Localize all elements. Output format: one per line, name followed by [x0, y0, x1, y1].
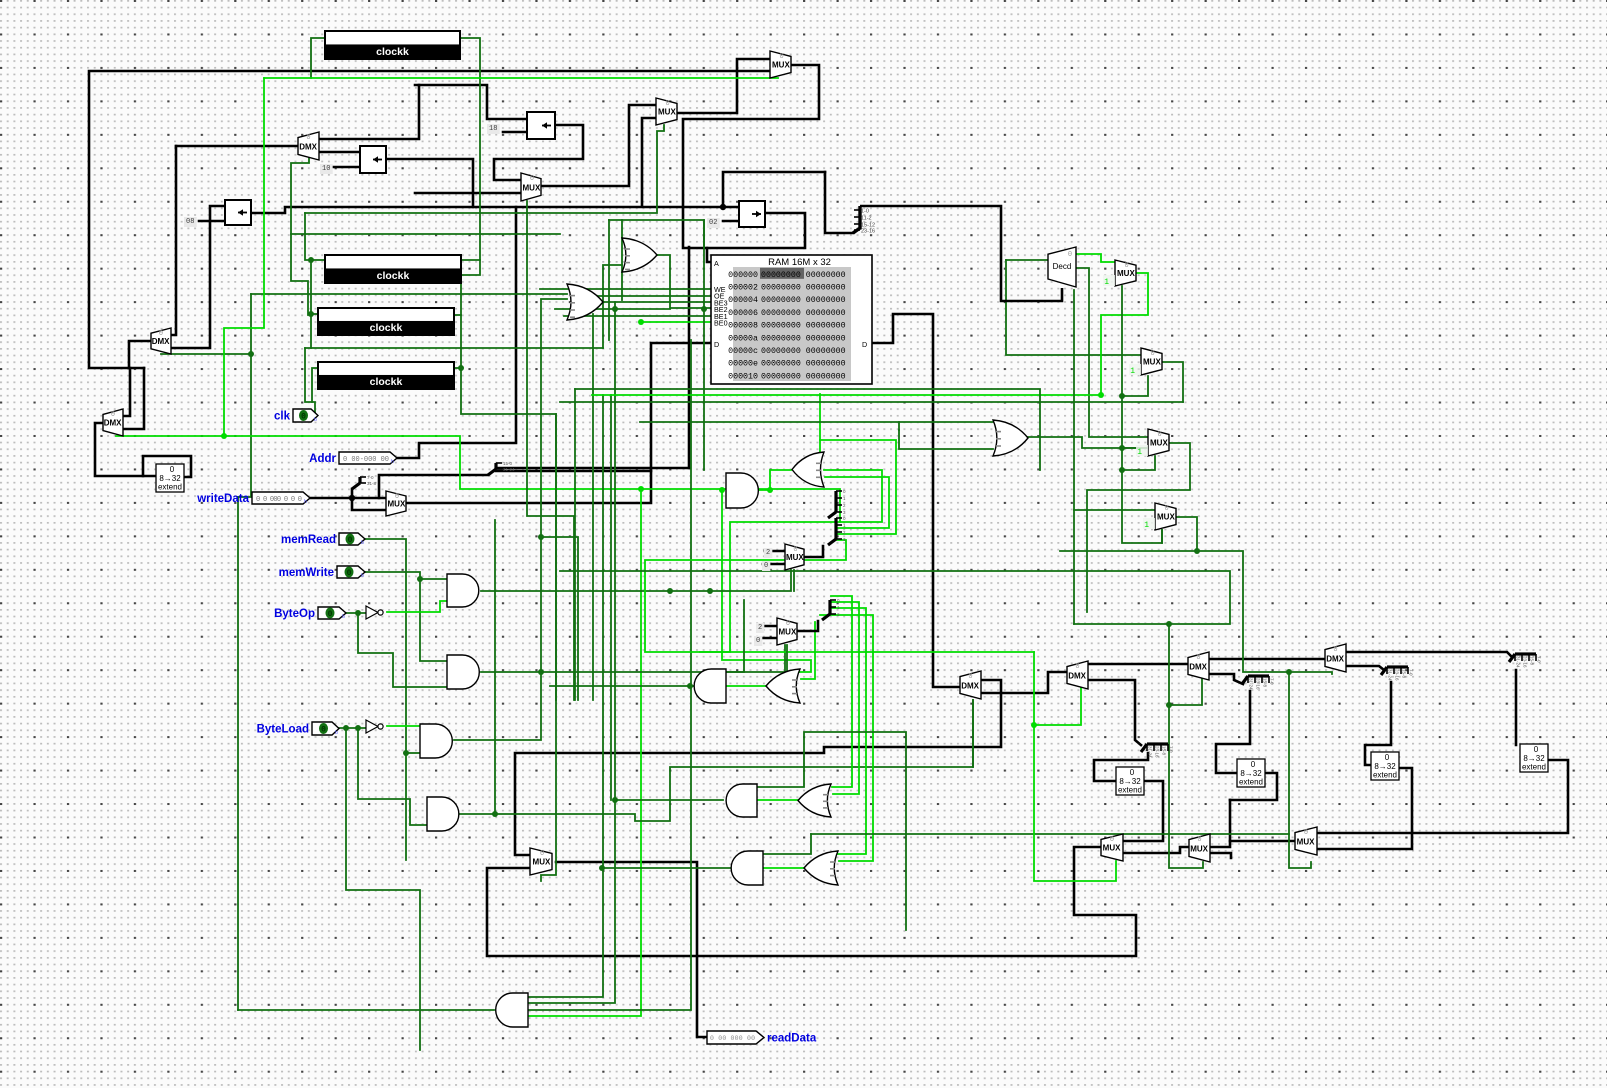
svg-text:23-16: 23-16: [1395, 669, 1400, 681]
junction v1122-c: [1119, 467, 1125, 473]
wire green bright-y78: [264, 77, 778, 79]
decoder Decd: [1048, 247, 1076, 287]
mux r3: [1136, 429, 1169, 457]
svg-text:MUX: MUX: [533, 858, 551, 867]
svg-text:00000000 00000000: 00000000 00000000: [761, 309, 846, 318]
junction y591-b: [707, 588, 713, 594]
svg-text:10: 10: [322, 165, 330, 173]
svg-text:clockk: clockk: [370, 322, 403, 334]
junction y624: [1166, 621, 1172, 627]
wire green and4p-out: [602, 867, 730, 869]
svg-text:11-2: 11-2: [861, 216, 872, 222]
wire green and2-in1: [726, 600, 744, 672]
wire bus dmxC-left: [95, 423, 156, 476]
and gate p4: [731, 851, 763, 885]
svg-text:0: 0: [1197, 836, 1201, 844]
mux top: [770, 51, 791, 78]
svg-text:DMX: DMX: [961, 681, 979, 690]
wire green and3p-in1: [757, 732, 906, 930]
wire green v691: [528, 340, 691, 1010]
wire green y348-ext: [461, 347, 603, 349]
wire bus box08-in-top: [171, 206, 225, 348]
svg-text:b: b: [335, 730, 338, 736]
wire bus box10-out: [386, 159, 473, 207]
and gate p3: [726, 784, 757, 817]
svg-text:0: 0: [321, 726, 326, 735]
wire green or2-out: [726, 685, 766, 687]
svg-text:23-16: 23-16: [861, 229, 875, 235]
wire bus box18-lbl: [503, 131, 527, 134]
wire bus dmx1-out2: [981, 672, 1067, 693]
svg-text:clockk: clockk: [376, 46, 409, 58]
svg-text:DMX: DMX: [104, 419, 122, 428]
svg-text:MUX: MUX: [1103, 844, 1121, 853]
svg-text:b: b: [314, 417, 317, 423]
junction y395: [1098, 392, 1104, 398]
wire green mux1-out: [1101, 273, 1148, 395]
svg-text:0 00-000 00: 0 00-000 00: [343, 456, 389, 464]
junction v1169: [1166, 702, 1172, 708]
svg-text:b: b: [342, 614, 345, 620]
wire green mux4r-in1: [1074, 509, 1155, 511]
svg-text:1: 1: [1104, 278, 1109, 287]
junction y868: [599, 865, 605, 871]
wire bus splitSPD-out: [496, 467, 689, 470]
wire bus dmx2-out1: [1088, 663, 1188, 666]
svg-text:23-16: 23-16: [1256, 678, 1261, 690]
wire bus split5-down: [1094, 753, 1148, 781]
wire green k3-chain-v: [461, 275, 556, 753]
or gate p2: [766, 669, 800, 703]
wire green v556b: [555, 414, 557, 700]
svg-text:2: 2: [766, 549, 770, 557]
or gate p4: [804, 851, 838, 885]
wire green bl-stair2: [358, 728, 427, 825]
junction and4out: [492, 811, 498, 817]
junction and3o: [538, 534, 544, 540]
svg-text:15-8: 15-8: [1530, 656, 1535, 666]
wire green mux3r-in2: [1122, 447, 1148, 449]
splitter byte-b: [822, 598, 840, 620]
label 18: [487, 124, 500, 134]
svg-text:0: 0: [1130, 768, 1135, 777]
wire green y213-line: [305, 125, 664, 213]
wire bus split8-down: [1365, 682, 1391, 765]
wire bus mux2-out: [677, 59, 770, 113]
wire green v1289: [1289, 672, 1311, 868]
wire bus split7-down: [1515, 670, 1518, 745]
label 08: [184, 217, 197, 227]
wire green y705-line: [1169, 678, 1202, 705]
svg-text:MUX: MUX: [1117, 269, 1135, 278]
junction y489-b: [719, 487, 725, 493]
wire green k4-feed: [312, 368, 318, 402]
wire green y834-long: [811, 833, 1289, 835]
svg-text:0 0 000 0 0 0: 0 0 000 0 0 0: [256, 496, 302, 504]
mux r4: [1143, 503, 1176, 530]
and gate ctl4: [427, 797, 459, 831]
junction dmxB-sel: [248, 351, 254, 357]
wire green muxA-sel: [793, 570, 795, 591]
mux mid-right: [521, 173, 541, 201]
junction wd: [349, 495, 355, 501]
svg-text:0: 0: [1251, 760, 1256, 769]
svg-text:15-8: 15-8: [1263, 678, 1268, 688]
wire bus addr-ram-a: [688, 247, 691, 468]
wire green and2c-out: [481, 645, 785, 672]
wire green v494: [494, 520, 496, 814]
wire green splitA-net3: [820, 440, 896, 534]
svg-text:DMX: DMX: [152, 337, 170, 346]
svg-text:DMX: DMX: [1189, 662, 1207, 671]
junction y551: [1194, 548, 1200, 554]
svg-text:15-8: 15-8: [1402, 669, 1407, 679]
wire green and4p-in1: [763, 834, 811, 854]
register box18: [527, 112, 555, 139]
wire green ram-we: [540, 288, 711, 290]
wire green k2-right: [461, 259, 480, 261]
svg-text:MUX: MUX: [772, 61, 790, 70]
wire bus y85-line: [415, 85, 527, 119]
wire bus dmxa-out2: [319, 151, 360, 154]
svg-text:MUX: MUX: [388, 500, 406, 509]
subcircuit clockk4: [318, 362, 454, 389]
wire green dmx1-sel: [972, 700, 974, 767]
wire bus muxA-in1: [765, 550, 785, 553]
demux DMX1: [960, 671, 981, 699]
wire bus ext2-out: [1230, 773, 1277, 800]
wire bus x826-down: [825, 172, 853, 233]
wire bus muxtop-out: [683, 65, 819, 262]
junction y591-a: [667, 588, 673, 594]
svg-text:RAM 16M x 32: RAM 16M x 32: [768, 257, 831, 268]
wire green bright-y395: [592, 394, 1101, 396]
wire bus dmx4-out2: [1346, 666, 1384, 670]
wire green not2-out: [387, 725, 420, 727]
label muxA-0: [762, 561, 770, 571]
register box08: [225, 200, 251, 225]
wire green splitB-net1: [831, 596, 852, 787]
svg-text:7-0: 7-0: [367, 475, 374, 480]
wire green v1169-top: [1074, 623, 1169, 625]
svg-text:1: 1: [1130, 367, 1135, 376]
wire green byteop-stair: [358, 613, 447, 687]
wire green k2-left: [311, 259, 325, 261]
svg-text:MUX: MUX: [658, 108, 676, 117]
demux DMX2: [1067, 661, 1088, 689]
wire bus muxB-in1: [758, 625, 777, 628]
svg-text:7-0: 7-0: [1169, 746, 1174, 753]
wire green and4-out: [460, 700, 973, 821]
wire green memwrite: [365, 572, 447, 579]
wire bus dmx3-out1: [1210, 658, 1325, 661]
register box02: [739, 201, 765, 227]
wire green k2-left-v: [310, 260, 312, 348]
svg-text:MUX: MUX: [779, 628, 797, 637]
svg-text:000002: 000002: [728, 284, 758, 293]
wire green or4-out: [763, 867, 804, 869]
mux readSel: [530, 848, 552, 875]
wire green dmxa-sel: [291, 158, 311, 315]
wire bus muxwd-out: [406, 343, 711, 503]
demux DMX-c: [103, 409, 123, 436]
wire green memread-spur: [541, 537, 578, 700]
svg-text:DMX: DMX: [1068, 671, 1086, 680]
svg-text:Decd: Decd: [1053, 262, 1072, 271]
svg-text:ByteLoad: ByteLoad: [257, 724, 309, 736]
wire green decd-out2: [1075, 268, 1148, 437]
junction k3l: [308, 311, 314, 317]
wire green v238: [237, 497, 239, 1010]
mux r2: [1129, 348, 1162, 376]
wire green v603: [528, 395, 603, 997]
wire green bright-v641: [528, 489, 641, 1016]
svg-text:b: b: [361, 540, 364, 546]
junction y800: [612, 797, 618, 803]
svg-text:31-24: 31-24: [503, 467, 515, 472]
wire green bright-v820: [819, 394, 821, 440]
wire bus box10-lbl: [333, 166, 360, 169]
junction k4r: [458, 365, 464, 371]
input pin memWrite: [279, 566, 365, 579]
junction be2-b: [701, 306, 707, 312]
wire green bright-selA: [1034, 652, 1116, 881]
wire green and3-in2: [406, 752, 420, 754]
not gate 1: [366, 606, 383, 619]
wire bus ext3-out: [1317, 768, 1412, 849]
wire bus muxc-out: [1210, 841, 1295, 847]
wire green y551-long: [1060, 551, 1332, 674]
wire bus wd-split-up: [351, 489, 354, 498]
svg-text:MUX: MUX: [523, 183, 541, 192]
wire bus dmxa-in: [176, 145, 298, 148]
wire green v615: [528, 302, 615, 1003]
svg-text:00000c: 00000c: [728, 347, 758, 356]
junction be0: [638, 319, 644, 325]
splitter wd: [352, 475, 377, 489]
input pin ByteOp: [274, 607, 346, 620]
svg-text:00000000 00000000: 00000000 00000000: [761, 271, 846, 280]
wire bus ext1-out: [1123, 781, 1163, 841]
wire green and1c-out: [481, 570, 791, 591]
input pin ByteLoad: [257, 722, 339, 736]
wire green bl-stair1: [346, 728, 420, 1050]
svg-text:0: 0: [1075, 663, 1079, 671]
mux byte-b: [777, 618, 797, 645]
mux bot-a: [1101, 834, 1123, 861]
svg-text:00000000 00000000: 00000000 00000000: [761, 296, 846, 305]
wire bus wd-d-line: [496, 470, 651, 473]
wire green y348-up: [603, 265, 622, 348]
wire green splitB-net2: [831, 602, 859, 794]
svg-text:15-0: 15-0: [503, 461, 513, 466]
svg-text:extend: extend: [1239, 778, 1263, 787]
wire green splitA-net4: [645, 540, 1034, 652]
svg-text:A: A: [714, 259, 719, 268]
junction y672: [538, 669, 544, 675]
wire green clk-net: [305, 348, 315, 416]
svg-text:clockk: clockk: [377, 270, 410, 282]
wire green dmx2-sel: [1034, 686, 1081, 725]
label 02: [707, 218, 720, 228]
junction and2out: [687, 683, 693, 689]
svg-text:00000a: 00000a: [728, 334, 758, 343]
wire green v722-net: [722, 490, 811, 672]
wire bus dmx1-out1: [515, 680, 1001, 855]
svg-text:MUX: MUX: [1143, 358, 1161, 367]
svg-text:0: 0: [301, 413, 306, 422]
or gate right: [993, 420, 1028, 456]
junction byteload-1: [343, 725, 349, 731]
svg-text:31-24: 31-24: [1388, 669, 1393, 681]
wire green muxmid-sel: [526, 201, 528, 213]
wire green v1169: [1169, 624, 1203, 868]
wire green memread: [365, 539, 406, 860]
svg-text:extend: extend: [1118, 786, 1142, 795]
wire green k4-right: [454, 367, 461, 369]
mux r1: [1103, 260, 1136, 287]
extender ext4: [1520, 744, 1548, 772]
wire green splitA-net2: [825, 477, 889, 528]
wire green v622: [621, 220, 623, 300]
wire bus dmx3-out2: [1210, 674, 1243, 684]
subcircuit clockk2: [325, 255, 461, 283]
svg-text:0: 0: [1333, 646, 1337, 654]
wire bus muxA-out: [804, 546, 823, 557]
wire green v251: [238, 294, 251, 497]
svg-text:31-8: 31-8: [367, 481, 377, 486]
RAM 16M x 32: [711, 255, 872, 384]
demux DMX3: [1188, 652, 1209, 680]
wire bus dmxB-link: [129, 341, 151, 368]
wire green netA-left: [700, 522, 836, 652]
svg-text:000000: 000000: [728, 271, 758, 280]
mux bot-c: [1295, 827, 1317, 855]
svg-text:0: 0: [1068, 251, 1072, 259]
wire green or2-in2: [801, 622, 815, 679]
svg-text:0: 0: [347, 569, 352, 578]
svg-text:D: D: [862, 340, 867, 349]
wire green and3-out: [454, 299, 567, 740]
svg-text:DMX: DMX: [299, 142, 317, 151]
svg-text:extend: extend: [158, 483, 182, 492]
svg-text:MUX: MUX: [1190, 844, 1208, 853]
output pin readData: [707, 1031, 817, 1045]
wire green decd-in: [1006, 259, 1048, 261]
wire bus split6-down: [1216, 691, 1250, 773]
or gate A: [622, 238, 657, 272]
svg-text:DMX: DMX: [1326, 654, 1344, 663]
register box10: [360, 146, 386, 173]
splitter s8: [1381, 667, 1414, 681]
wire green or3-out: [757, 799, 798, 801]
mux second: [656, 98, 677, 125]
svg-text:extend: extend: [1522, 763, 1546, 772]
junction v1122-a: [1119, 393, 1125, 399]
wire bus ext4-out: [1317, 760, 1568, 833]
svg-text:0: 0: [756, 637, 760, 645]
svg-text:0: 0: [348, 536, 353, 545]
wire green k1-left: [311, 38, 325, 78]
wire green splitA-net1: [824, 470, 882, 522]
wire bus wd-mux-in2: [352, 498, 386, 510]
junction v1289: [1286, 669, 1292, 675]
wire bus dmx4-out1: [1346, 652, 1512, 657]
input pin writeData: [196, 492, 310, 505]
svg-text:7-0: 7-0: [1270, 678, 1275, 685]
wire green or5-in1: [640, 421, 993, 423]
svg-text:7-0: 7-0: [1537, 656, 1542, 663]
svg-text:00000000 00000000: 00000000 00000000: [761, 372, 846, 381]
wire green decd-out1: [1075, 254, 1115, 262]
svg-text:18: 18: [489, 125, 497, 133]
junction byteop: [355, 610, 361, 616]
svg-text:08: 08: [186, 218, 194, 226]
wire green orA-out: [657, 255, 711, 308]
subcircuit clockk3: [318, 308, 454, 335]
demux DMX-a: [298, 132, 319, 160]
wire green orB-out: [603, 301, 711, 303]
wire green ram-be0: [641, 321, 711, 323]
extender ext3: [1371, 752, 1399, 780]
wire green mux4r-sel: [1161, 530, 1163, 543]
wire green and1-out-long: [759, 489, 840, 522]
svg-text:MUX: MUX: [1297, 837, 1315, 846]
wire bus muxb-out: [1123, 847, 1189, 853]
wire green y213-tail: [305, 213, 311, 260]
or gate p3: [798, 784, 831, 817]
wire bus muxa-out: [487, 847, 1136, 956]
wire bus y192-line: [415, 192, 521, 195]
wire green mw-v: [420, 579, 447, 661]
svg-text:7-0: 7-0: [1409, 669, 1414, 676]
svg-text:0: 0: [1196, 654, 1200, 662]
wire bus wd-mux-in: [352, 497, 386, 500]
splitter s6: [1242, 676, 1275, 690]
wire bus writedata-link: [310, 497, 352, 500]
input pin clk: [274, 409, 318, 423]
svg-text:D: D: [714, 340, 719, 349]
wire bus muxB-out: [797, 621, 818, 631]
wire green y571-long: [560, 571, 1230, 624]
wire green y402-long: [560, 401, 1183, 403]
wire green ram-be1: [564, 315, 711, 317]
svg-text:0: 0: [1534, 745, 1539, 754]
svg-text:h: h: [391, 459, 394, 465]
and gate ctl2: [447, 655, 479, 689]
or gate B: [567, 284, 603, 320]
svg-text:h: h: [304, 499, 307, 505]
wire bus x144-link: [123, 368, 144, 429]
and gate p2: [694, 669, 726, 703]
and gate ctl1: [447, 574, 479, 607]
wire green y220-line: [609, 220, 704, 247]
wire green x609-up: [608, 220, 610, 340]
wire green or5-in2b: [898, 422, 900, 430]
svg-text:31-24: 31-24: [1516, 656, 1521, 668]
wire green mux4r-out: [1176, 517, 1197, 551]
wire bus box02-out: [707, 213, 805, 248]
svg-text:00000000 00000000: 00000000 00000000: [761, 334, 846, 343]
wire green mux3r-out: [1087, 443, 1190, 612]
label muxB-2: [756, 623, 764, 633]
input pin memRead: [281, 533, 365, 546]
svg-text:Addr: Addr: [309, 453, 336, 465]
junction k2l: [308, 257, 314, 263]
svg-text:0: 0: [170, 465, 175, 474]
svg-text:0 00 000 00: 0 00 000 00: [710, 1035, 755, 1042]
svg-text:MUX: MUX: [1150, 439, 1168, 448]
